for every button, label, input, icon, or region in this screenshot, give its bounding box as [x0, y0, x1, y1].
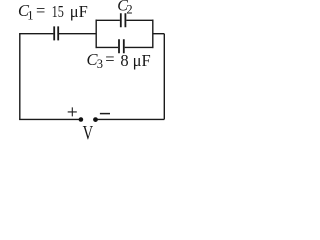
svg-text:8: 8: [120, 51, 128, 70]
battery terminal dot right (-): [93, 117, 98, 122]
wire box left vertical: [95, 20, 97, 48]
wire bottom branch left of C3: [96, 46, 119, 48]
wire bottom right segment: [97, 118, 165, 120]
svg-text:1: 1: [27, 8, 33, 22]
battery terminal dot left (+): [79, 117, 84, 122]
svg-text:V: V: [83, 122, 94, 142]
wire top branch right of C2: [126, 19, 153, 21]
svg-text:3: 3: [97, 57, 103, 71]
capacitor C1 plates: [54, 26, 58, 40]
wire top branch left of C2: [96, 19, 120, 21]
svg-text:=: =: [36, 1, 45, 20]
capacitor C3 plates: [119, 39, 124, 53]
wire top left segment: [19, 33, 53, 35]
wire bottom branch right of C3: [125, 46, 154, 48]
svg-text:μF: μF: [70, 2, 88, 21]
plus sign of source: [68, 107, 77, 116]
wire right vertical: [163, 34, 165, 120]
svg-text:15: 15: [52, 2, 64, 21]
capacitor C2 plates: [121, 13, 126, 27]
svg-text:=: =: [105, 50, 114, 69]
svg-text:μF: μF: [133, 51, 151, 70]
wire bottom left segment: [19, 118, 80, 120]
svg-text:2: 2: [126, 3, 132, 17]
minus sign of source: [100, 113, 110, 115]
wire top right segment (C1 to box): [59, 33, 96, 35]
wire box right vertical: [152, 20, 154, 48]
wire box to right edge: [153, 33, 165, 35]
wire left vertical: [19, 34, 21, 120]
